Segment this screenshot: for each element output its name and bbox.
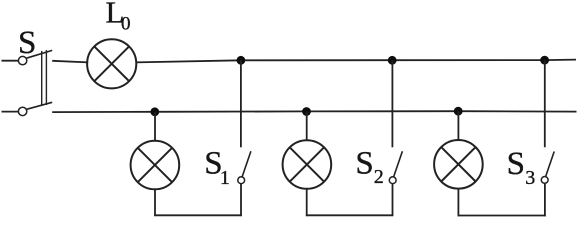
wire: bottom rail (52, 110, 576, 113)
svg-text:S: S (355, 145, 373, 181)
wire: left lead to switch S top pole (2, 60, 19, 62)
switch S2 blade (394, 151, 403, 176)
wire: lamp 3 to bottom connector (457, 189, 459, 217)
wire: bottom connector of branch 2 (306, 214, 393, 216)
lamp 2 (283, 140, 332, 189)
switch S1 contact (238, 177, 245, 184)
switch S2 contact (389, 177, 396, 184)
wire: top rail, lamp L0 to right end (136, 60, 577, 63)
node: bottom rail / lamp 2 branch junction (302, 107, 311, 116)
wire: left lead to switch S bottom pole (2, 111, 19, 113)
wire: bottom rail to lamp 1 (154, 112, 156, 141)
svg-text:S: S (18, 25, 36, 61)
switch S tie bar (42, 50, 47, 106)
lamp L0 (87, 39, 136, 88)
node: top rail / S3 branch junction (540, 56, 549, 65)
wire: S3 branch from top rail (544, 60, 546, 147)
lamp 1 (131, 141, 180, 190)
switch S bottom pole pivot (18, 107, 26, 115)
switch S3 blade (546, 152, 555, 177)
switch S1 blade (242, 151, 251, 176)
wire: bottom connector of branch 3 (458, 215, 546, 217)
wire: bottom rail to lamp 3 (457, 111, 459, 140)
svg-text:3: 3 (525, 167, 535, 189)
lamp 3 (434, 140, 483, 189)
switch S bottom blade (27, 102, 53, 109)
wire: S2 contact to bottom connector (392, 184, 394, 216)
svg-text:S: S (507, 146, 525, 182)
svg-text:1: 1 (220, 167, 230, 189)
svg-text:0: 0 (121, 14, 131, 35)
wire: lamp 2 to bottom connector (306, 189, 308, 216)
wire: S2 branch from top rail (391, 60, 393, 147)
wire: S1 contact to bottom connector (240, 184, 242, 216)
node: top rail / S2 branch junction (388, 56, 397, 65)
switch S top blade (26, 50, 52, 58)
node: bottom rail / lamp 1 branch junction (150, 107, 159, 116)
wire: lamp 1 to bottom connector (154, 189, 156, 216)
switch S top pole pivot (18, 56, 26, 64)
wire: bottom connector of branch 1 (154, 214, 242, 216)
wire: S1 branch from top rail (240, 60, 242, 147)
switch S3 contact (541, 177, 548, 184)
wire: S3 contact to bottom connector (544, 183, 546, 216)
svg-text:2: 2 (374, 166, 384, 188)
wire: bottom rail to lamp 2 (306, 112, 308, 141)
node: top rail / S1 branch junction (237, 56, 246, 65)
node: bottom rail / lamp 3 branch junction (454, 107, 463, 116)
wire: top rail, switch S to lamp L0 (52, 61, 88, 63)
